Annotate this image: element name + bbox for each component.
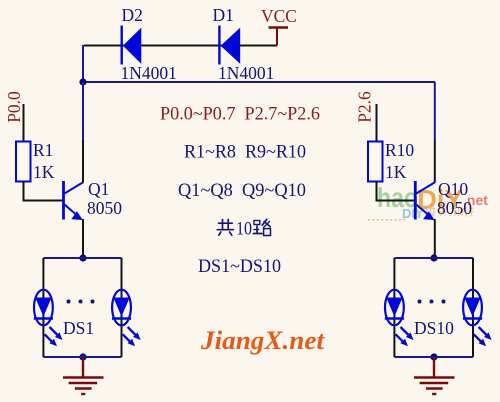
svg-text:1K: 1K <box>385 162 407 182</box>
svg-text:10: 10 <box>236 219 252 240</box>
svg-text:8050: 8050 <box>437 198 472 218</box>
svg-text:D1: D1 <box>213 5 234 25</box>
svg-text:DS10: DS10 <box>414 318 454 338</box>
svg-text:R1: R1 <box>33 140 53 160</box>
svg-text:P2.6: P2.6 <box>355 91 375 123</box>
svg-text:VCC: VCC <box>261 6 297 26</box>
svg-text:8050: 8050 <box>87 198 122 218</box>
svg-text:P0.0: P0.0 <box>4 91 24 123</box>
svg-text:D2: D2 <box>122 5 143 25</box>
svg-text:R10: R10 <box>385 140 414 160</box>
svg-text:R1~R8 R9~R10: R1~R8 R9~R10 <box>184 142 306 163</box>
svg-text:DS1: DS1 <box>63 318 94 338</box>
svg-text:1N4001: 1N4001 <box>121 63 177 83</box>
svg-text:Q1: Q1 <box>88 179 109 199</box>
svg-text:1K: 1K <box>33 162 55 182</box>
svg-text:1N4001: 1N4001 <box>218 63 274 83</box>
svg-text:Q1~Q8 Q9~Q10: Q1~Q8 Q9~Q10 <box>178 180 306 201</box>
svg-text:P0.0~P0.7 P2.7~P2.6: P0.0~P0.7 P2.7~P2.6 <box>160 104 320 125</box>
svg-text:DS1~DS10: DS1~DS10 <box>198 256 281 277</box>
svg-text:JiangX.net: JiangX.net <box>200 326 325 355</box>
svg-text:Q10: Q10 <box>438 179 468 199</box>
